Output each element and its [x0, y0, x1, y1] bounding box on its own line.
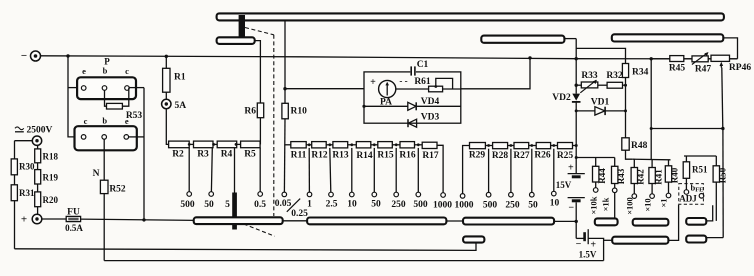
node junction main rail 651 [650, 57, 653, 60]
resistor R10 [282, 103, 307, 119]
wire R15-R16 [392, 143, 400, 146]
resistor R28 [492, 143, 509, 162]
switch bar E [633, 219, 669, 226]
svg-text:5A: 5A [175, 101, 187, 111]
wire R10 lower + 0.05 drop [283, 119, 286, 192]
wire bar B to bar C [446, 220, 463, 222]
capacitor C1 [410, 60, 428, 76]
wire R5 to R6 line [259, 143, 261, 145]
diode VD4 [362, 97, 460, 110]
fuse FU 0.5A [65, 208, 83, 234]
wire horizontal 128 [650, 127, 723, 130]
switch bar A [194, 217, 283, 224]
wire R28-R27 [508, 144, 514, 147]
diode VD3 bottom edge [408, 113, 439, 128]
wire fuse rail [42, 219, 195, 220]
diode VD1 [575, 98, 626, 116]
svg-text:0.25: 0.25 [291, 209, 308, 219]
svg-text:2500V: 2500V [27, 126, 53, 136]
resistor R48 [622, 138, 648, 151]
resistor R1 [163, 68, 186, 92]
wire R1 to 5A jack [165, 92, 167, 99]
wire R11-R12 [306, 143, 312, 146]
wire R1 vertical top [165, 56, 167, 68]
resistor R15 [377, 142, 394, 161]
wire R51 contact [684, 178, 689, 194]
svg-text:1000: 1000 [455, 201, 474, 211]
meter module box [364, 72, 461, 123]
svg-text:R15: R15 [377, 151, 394, 161]
wire R13-R14 [348, 143, 357, 146]
contact 500 drop [180, 148, 195, 210]
resistor R52 [100, 180, 126, 194]
svg-text:c: c [84, 116, 88, 126]
svg-text:VD3: VD3 [421, 113, 440, 123]
svg-text:500: 500 [180, 200, 195, 210]
svg-text:0.5A: 0.5A [65, 223, 83, 233]
contact 250 drop [391, 148, 406, 210]
svg-text:10: 10 [550, 199, 560, 209]
svg-text:R45: R45 [669, 64, 686, 74]
svg-text:250: 250 [505, 201, 520, 211]
wire RP46 wiper vertical [722, 68, 723, 129]
svg-text:R31: R31 [19, 188, 35, 198]
svg-text:−: − [21, 50, 27, 62]
switch bar H2 small [463, 236, 484, 242]
svg-text:b: b [102, 115, 107, 125]
svg-text:500: 500 [413, 200, 428, 210]
svg-text:R13: R13 [332, 151, 349, 161]
wire R50 bottom [715, 182, 717, 221]
svg-text:1000: 1000 [433, 201, 452, 211]
svg-text:15V: 15V [556, 180, 572, 190]
wire main rail segs right [651, 58, 737, 60]
wire R44 R43 top rail [576, 158, 615, 167]
wire R42 contact [632, 184, 637, 199]
svg-text:50: 50 [371, 200, 381, 210]
wire R12-R13 [326, 143, 333, 146]
svg-text:×10k: ×10k [589, 196, 599, 214]
wire R34 bottom to VD1 node [624, 78, 627, 113]
svg-text:ADJ: ADJ [679, 194, 697, 204]
node junction main rail 576 [575, 57, 578, 60]
svg-text:b: b [103, 66, 108, 76]
svg-text:×100: ×100 [625, 197, 635, 215]
svg-text:R29: R29 [469, 151, 486, 161]
jack 5A [162, 99, 187, 111]
resistor R33 adjustable [576, 71, 598, 93]
wire R33-R32 [598, 84, 607, 86]
resistor R41 [649, 168, 664, 185]
resistor R13 [332, 142, 349, 161]
wire socket right vertical to fuse rail [142, 88, 145, 222]
wire R40 contact [666, 182, 671, 198]
svg-text:R50: R50 [718, 167, 728, 183]
wire bar G lead up [668, 205, 678, 241]
svg-text:e: e [125, 116, 129, 126]
contact 1 drop [307, 148, 312, 210]
wire bar1 lead [564, 38, 576, 40]
label bFE [690, 183, 703, 199]
svg-text:R44: R44 [597, 168, 607, 184]
node P [104, 57, 110, 67]
svg-text:R4: R4 [221, 150, 233, 160]
wire VD1 node down to R48 [625, 111, 627, 138]
svg-text:R47: R47 [695, 65, 712, 75]
svg-text:N: N [93, 169, 100, 179]
resistor R19 [35, 170, 59, 184]
resistor R4 [217, 141, 237, 159]
contact 10 ohm drop [550, 149, 560, 209]
wire R44 contact [593, 182, 598, 192]
label x10 [643, 198, 653, 211]
terminal plus [21, 214, 42, 226]
wire R53 branch [105, 88, 129, 107]
svg-text:R32: R32 [606, 71, 623, 81]
svg-text:1: 1 [307, 200, 312, 210]
resistor R17 [422, 142, 439, 161]
transistor socket XS2 c b e [75, 115, 137, 150]
contact 0.5 drop [254, 148, 266, 210]
wire R25 right to vertical [573, 145, 577, 147]
svg-text:FU: FU [67, 208, 80, 218]
svg-text:250: 250 [391, 200, 406, 210]
svg-text:R18: R18 [43, 152, 59, 162]
contact 1000 of R29 [455, 194, 474, 211]
resistor R16 [399, 142, 416, 161]
svg-text:VD1: VD1 [591, 98, 610, 108]
svg-text:×1k: ×1k [601, 197, 611, 211]
wire top bar drop to PA rail [284, 20, 286, 88]
svg-text:R27: R27 [513, 151, 530, 161]
wire R11 chain left [284, 144, 290, 146]
switch bar G [612, 237, 668, 244]
wire RP46 wiper vertical lower [722, 129, 724, 238]
wire 1.5V plus lead [588, 238, 612, 260]
svg-text:R3: R3 [197, 150, 209, 160]
resistor R20 [35, 192, 59, 207]
svg-text:500: 500 [483, 201, 498, 211]
wire battery 15V bottom [575, 202, 577, 238]
wire R29-R28 [485, 144, 492, 147]
contact 500 ohm drop [483, 149, 498, 211]
wire R41 contact [650, 184, 655, 199]
svg-text:R42: R42 [636, 169, 646, 185]
switch bar F [686, 218, 706, 225]
svg-text:VD2: VD2 [552, 93, 571, 103]
resistor R27 [513, 143, 530, 162]
svg-text:10: 10 [347, 200, 357, 210]
wire bottom rail 1 [15, 243, 477, 251]
wire big vertical mid [575, 85, 578, 147]
svg-text:R2: R2 [172, 150, 184, 160]
resistor R47 adjustable [692, 52, 712, 74]
svg-text:R28: R28 [492, 151, 509, 161]
meter PA [370, 76, 407, 108]
wiper contact 5 [225, 148, 237, 230]
wire R32 to R34 bottom [623, 84, 628, 87]
svg-text:50: 50 [528, 201, 538, 211]
battery 15V [556, 163, 585, 214]
wire multiplier top rail [633, 159, 671, 167]
resistor R11 [291, 142, 307, 161]
svg-text:R61: R61 [414, 77, 431, 87]
svg-text:R43: R43 [616, 168, 626, 184]
svg-text:e: e [82, 66, 86, 76]
wire PA rail inside [396, 88, 461, 90]
node junction bar3 wire [575, 220, 578, 223]
svg-text:R14: R14 [356, 151, 373, 161]
resistor R44 [593, 166, 608, 183]
wire short bar to R6 [255, 41, 261, 103]
svg-text:R20: R20 [43, 195, 59, 205]
contact 0.05 [275, 192, 292, 209]
svg-text:R40: R40 [670, 167, 680, 183]
node junction main rail R1 [165, 55, 168, 58]
node junction PA rail [283, 87, 286, 90]
node junction R33 wire [575, 84, 578, 87]
svg-text:50: 50 [204, 200, 214, 210]
svg-text:+: + [370, 77, 376, 88]
node junction 723 [721, 127, 724, 130]
wire PA module right link [461, 58, 530, 89]
wire socket1 c to right vertical [129, 87, 144, 89]
node junction main rail to transistor sockets [66, 54, 69, 57]
svg-text:×1: ×1 [659, 198, 669, 207]
wire big vertical to battery rail [575, 146, 578, 174]
svg-text:+: + [568, 163, 574, 174]
svg-text:R11: R11 [291, 151, 307, 161]
label ADJ [679, 194, 697, 204]
wire left vertical [14, 141, 16, 249]
switch top wiper [239, 15, 245, 42]
wire R14-R15 [371, 143, 378, 146]
resistor R32 [606, 71, 623, 88]
resistor R34 [622, 64, 648, 78]
svg-text:−: − [568, 203, 574, 214]
node junction main rail PA link [528, 56, 531, 59]
wire 5A to shunt chain [166, 109, 168, 145]
svg-text:- -: - - [399, 76, 407, 86]
wire bar A to bar B [283, 220, 307, 222]
svg-text:R17: R17 [422, 151, 439, 161]
switch bar C [463, 218, 554, 225]
svg-text:R5: R5 [244, 150, 256, 160]
wire big vertical upper [575, 39, 577, 86]
switch bar H [686, 236, 706, 243]
svg-text:R6: R6 [244, 107, 256, 117]
diode VD2 [552, 85, 580, 111]
wire R48 to multiplier rail [626, 150, 633, 159]
wire vertical 651 [650, 59, 652, 160]
svg-text:R41: R41 [654, 169, 664, 185]
label x1 [659, 198, 669, 207]
contact 2.5 drop [326, 148, 338, 210]
wire 2500V to left vertical [15, 140, 33, 142]
contact 500 drop [413, 148, 428, 210]
wire main negative rail [41, 56, 738, 59]
resistor R3 [194, 141, 214, 159]
svg-text:VD4: VD4 [421, 97, 440, 107]
svg-text:R48: R48 [631, 141, 648, 151]
resistor R45 [669, 56, 686, 74]
svg-text:R52: R52 [109, 185, 126, 195]
linkage dashed vertical [273, 35, 275, 216]
contact 50 drop [371, 148, 381, 210]
wire socket left vertical [68, 56, 77, 137]
switch middle bar 2 [612, 34, 724, 41]
wire R2-R3 [188, 143, 194, 146]
wire bar2 lead [723, 38, 737, 59]
resistor R61 [414, 77, 442, 92]
potentiometer RP46 [711, 55, 751, 73]
svg-text:R19: R19 [43, 173, 59, 183]
wire N vertical [103, 139, 105, 180]
terminal 2500V [15, 126, 53, 146]
wire R3-R4 [212, 143, 217, 146]
wire R10 upper [284, 89, 286, 104]
resistor R14 [356, 142, 373, 161]
svg-text:R33: R33 [581, 71, 598, 81]
svg-text:RP46: RP46 [729, 63, 751, 73]
resistor R25 [557, 143, 574, 162]
wire x1k selected drop [614, 193, 616, 219]
resistor R42 [631, 168, 645, 185]
svg-text:c: c [125, 66, 129, 76]
svg-text:R16: R16 [399, 151, 416, 161]
wire R43 contact [612, 184, 617, 193]
resistor R50 [713, 166, 727, 183]
wire R27-R26 [529, 144, 537, 147]
label x100 [625, 197, 635, 215]
resistor R18 [35, 149, 59, 163]
svg-text:0.05: 0.05 [275, 199, 292, 209]
wire PA rail left [285, 88, 364, 90]
wire bar H lead [706, 237, 723, 239]
wire bottom rail 2 [104, 260, 603, 262]
label 0.25 with slash [287, 199, 308, 219]
svg-text:R26: R26 [534, 151, 551, 161]
resistor R5 [241, 141, 261, 159]
wire R52 down to bottom rail [103, 194, 105, 261]
resistor R53 [107, 103, 143, 121]
svg-text:R1: R1 [174, 73, 186, 83]
resistor R12 [311, 142, 328, 161]
label x10k [589, 196, 599, 214]
wire R61 shunt loop [434, 78, 452, 88]
svg-text:2.5: 2.5 [326, 200, 338, 210]
resistor R26 [534, 143, 551, 161]
svg-text:R25: R25 [557, 151, 574, 161]
svg-text:C1: C1 [417, 60, 429, 70]
switch bar B [307, 218, 446, 225]
linkage dashed diagonal bottom [238, 222, 275, 237]
contact 50 ohm drop [528, 149, 538, 211]
transistor socket XS1 e b c [77, 66, 136, 100]
wire bar C to 15V minus [554, 220, 576, 222]
svg-text:×10: ×10 [643, 198, 653, 211]
wire R26-R25 [551, 144, 558, 147]
wire 2500V divider vertical [37, 145, 39, 214]
resistor R29 [469, 143, 486, 161]
svg-text:R30: R30 [19, 162, 35, 172]
wire R17 right to 1000 contact [437, 145, 443, 192]
label x1k [601, 197, 611, 211]
switch top bar [217, 13, 724, 20]
svg-text:R51: R51 [692, 165, 708, 175]
svg-text:0.5: 0.5 [254, 200, 266, 210]
node N label [93, 169, 100, 179]
svg-text:R10: R10 [291, 107, 308, 117]
switch short bar [217, 37, 255, 44]
svg-text:5: 5 [225, 200, 230, 210]
resistor R6 [244, 103, 263, 118]
wire R6 lower [259, 118, 261, 145]
resistor R51 [683, 162, 708, 179]
switch middle bar 1 [481, 36, 564, 43]
wire socket2 e to right vertical [129, 136, 144, 138]
wire bar F lead up [706, 205, 712, 221]
linkage dashed diagonal top [245, 28, 274, 35]
svg-text:R34: R34 [632, 68, 649, 78]
resistor R40 [665, 166, 679, 183]
wire R51 R50 top rail [684, 156, 716, 166]
wire R29 left to 1000 contact [463, 146, 470, 194]
contact 10 drop [347, 148, 357, 210]
svg-text:+: + [21, 214, 27, 226]
terminal minus [21, 50, 41, 62]
svg-text:R12: R12 [311, 151, 328, 161]
wire step branch to R34 [576, 48, 625, 63]
contact 1000 of R17 [433, 193, 452, 211]
adj dashed box [679, 184, 704, 205]
wire R4-R5 [235, 143, 241, 146]
wire R16-R17 [415, 143, 423, 146]
contact 50 drop [204, 148, 214, 210]
switch bar D [595, 218, 618, 225]
battery 1.5V [576, 229, 597, 259]
resistor R2 [169, 141, 190, 159]
resistor R30 [11, 159, 35, 175]
resistor R43 [612, 166, 627, 184]
contact 250 ohm drop [505, 149, 520, 211]
svg-text:1.5V: 1.5V [579, 250, 597, 260]
resistor R31 [11, 185, 35, 201]
